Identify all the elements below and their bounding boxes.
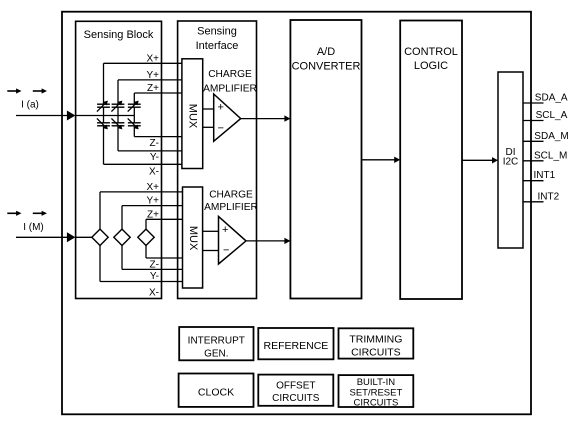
wire Y- (mag) to MUX (122, 268, 183, 270)
svg-text:X+: X+ (146, 53, 159, 64)
Sensing Interface box (178, 21, 257, 299)
svg-text:X-: X- (149, 288, 159, 299)
wire Z mag branch upper (145, 219, 147, 229)
wire Z- (mag) to MUX (146, 257, 183, 259)
label BUILT-IN SET/RESET CIRCUITS (350, 377, 403, 409)
svg-text:MUX: MUX (187, 226, 199, 251)
svg-text:Y-: Y- (150, 152, 159, 163)
wire Y accel branch middle (117, 107, 119, 123)
svg-text:AMPLIFIER: AMPLIFIER (203, 83, 257, 94)
pin wire INT1 (523, 180, 544, 182)
svg-text:LOGIC: LOGIC (414, 60, 448, 72)
Sensing Block box (76, 21, 162, 298)
wire Z accel branch upper (133, 93, 135, 104)
pin wire SCL_M (523, 160, 544, 162)
A/D Converter box U1 (290, 20, 361, 299)
wire Z accel branch lower (133, 126, 135, 137)
wire Y+ (mag) to MUX (122, 205, 183, 207)
svg-text:CLOCK: CLOCK (198, 386, 234, 398)
svg-text:I (a): I (a) (21, 100, 39, 111)
svg-text:SCL_M: SCL_M (534, 150, 567, 161)
label TRIMMING CIRCUITS (349, 334, 402, 359)
wire MUX to amp + input (accel) (203, 108, 214, 110)
svg-text:Y+: Y+ (146, 70, 159, 81)
svg-text:CIRCUITS: CIRCUITS (351, 347, 401, 359)
variable capacitor CY2 (accel Y lower) (111, 118, 124, 129)
Clock box (179, 374, 254, 407)
magnetoresistive element RY (diamond) (114, 229, 130, 245)
svg-text:Z-: Z- (150, 138, 159, 149)
svg-text:CIRCUITS: CIRCUITS (272, 393, 320, 404)
wire Z- (accel) to MUX (134, 136, 182, 138)
wire X accel branch lower (103, 126, 105, 165)
svg-text:CHARGE: CHARGE (208, 69, 252, 80)
svg-text:SDA_M: SDA_M (534, 131, 568, 142)
svg-text:+: + (217, 101, 223, 113)
Control Logic box U2 (400, 21, 462, 300)
wire MUX to amp - input (mag) (203, 250, 219, 252)
pin wire INT2 (523, 201, 544, 203)
wire I(M) excitation line inside block (75, 236, 92, 238)
wire Z mag branch lower (145, 245, 147, 258)
label CHARGE AMPLIFIER (accel) (203, 69, 257, 94)
svg-text:SCL_A: SCL_A (536, 110, 568, 121)
wire X- (mag) to MUX (100, 281, 183, 283)
svg-text:Z+: Z+ (147, 83, 159, 94)
svg-text:Interface: Interface (196, 40, 239, 52)
svg-text:OFFSET: OFFSET (276, 381, 315, 392)
input arrow I (M) small arrow 1 (7, 211, 21, 216)
svg-text:X+: X+ (146, 182, 159, 193)
svg-text:Y+: Y+ (146, 196, 159, 207)
wire amp (accel) output to A/D converter (241, 115, 291, 121)
svg-text:AMPLIFIER: AMPLIFIER (204, 202, 258, 213)
pin wire SCL_A (523, 120, 544, 122)
svg-text:+: + (222, 224, 228, 236)
MUX (accel) box (182, 59, 203, 169)
DI I2C interface box U3 (498, 72, 523, 248)
svg-text:Z+: Z+ (147, 209, 159, 220)
label OFFSET CIRCUITS (272, 381, 320, 404)
label CONTROL LOGIC (404, 46, 458, 72)
wire A/D converter to Control Logic (362, 157, 401, 163)
svg-text:CONTROL: CONTROL (404, 46, 458, 58)
wire Z accel branch middle (133, 107, 135, 123)
wire Y+ (accel) to MUX (118, 79, 182, 81)
svg-text:I2C: I2C (503, 157, 519, 168)
Trimming Circuits box (339, 328, 414, 358)
variable capacitor CZ1 (accel Z upper) (128, 101, 141, 112)
variable capacitor CZ2 (accel Z lower) (128, 118, 141, 129)
MUX (mag) box (183, 187, 203, 288)
svg-text:I (M): I (M) (23, 222, 44, 233)
label A/D CONVERTER (292, 46, 361, 72)
svg-text:MUX: MUX (187, 104, 199, 129)
label CHARGE AMPLIFIER (mag) (204, 189, 258, 213)
label Sensing Interface (196, 26, 239, 53)
wire X- (accel) to MUX (104, 163, 183, 165)
wire X mag branch upper (99, 192, 101, 230)
wire Control Logic to DI I2C (462, 157, 498, 163)
op-amp charge amplifier A1 (accel) (214, 94, 241, 141)
label DI I2C (503, 147, 519, 168)
wire I(a) excitation line with arrow into Sensing Block (16, 111, 75, 121)
pin wire SDA_M (523, 140, 544, 142)
wire Y accel branch lower (117, 126, 119, 151)
wire MUX to amp + input (mag) (203, 230, 219, 232)
svg-text:−: − (217, 123, 223, 135)
svg-text:CIRCUITS: CIRCUITS (353, 398, 398, 409)
svg-text:TRIMMING: TRIMMING (349, 334, 402, 346)
label INTERRUPT GEN. (188, 335, 245, 359)
input arrow I (a) small arrow 2 (33, 88, 47, 93)
wire X mag branch lower (99, 245, 101, 281)
variable capacitor CX2 (accel X lower) (97, 118, 110, 129)
svg-text:SDA_A: SDA_A (535, 93, 568, 104)
svg-text:INTERRUPT: INTERRUPT (188, 335, 245, 346)
Reference box (258, 328, 333, 359)
Built-in Set/Reset Circuits box (339, 375, 414, 407)
Offset Circuits box (258, 375, 333, 406)
wire I(a) excitation line inside block (75, 115, 134, 117)
wire Y mag branch lower (121, 245, 123, 269)
svg-text:INT1: INT1 (534, 170, 556, 181)
variable capacitor CY1 (accel Y upper) (111, 101, 124, 112)
wire X+ (mag) to MUX (100, 191, 183, 193)
wire Z+ (accel) to MUX (134, 92, 182, 94)
svg-text:INT2: INT2 (538, 191, 560, 202)
wire Y accel branch upper (117, 80, 119, 104)
svg-text:Sensing Block: Sensing Block (84, 29, 154, 41)
input arrow I (M) small arrow 2 (33, 211, 47, 216)
input arrow I (a) small arrow 1 (7, 88, 21, 93)
wire MUX to amp - input (accel) (203, 126, 214, 128)
chip outer boundary box (62, 12, 531, 415)
wire Y mag branch upper (121, 206, 123, 230)
pin wire SDA_A (523, 102, 544, 104)
wire I(M) excitation line with arrow into Sensing Block (16, 232, 75, 242)
op-amp charge amplifier A2 (mag) (219, 216, 247, 264)
wire X accel branch upper (103, 63, 105, 104)
wire X accel branch middle (103, 107, 105, 123)
svg-text:X-: X- (149, 166, 159, 177)
wire X+ (accel) to MUX (104, 62, 183, 64)
wire Z+ (mag) to MUX (146, 218, 183, 220)
svg-text:Sensing: Sensing (197, 26, 237, 38)
magnetoresistive element RX (diamond) (92, 229, 108, 245)
wire Y- (accel) to MUX (118, 150, 182, 152)
svg-text:A/D: A/D (317, 46, 335, 58)
Interrupt Generator box (179, 327, 253, 360)
svg-text:BUILT-IN: BUILT-IN (357, 377, 395, 388)
svg-text:−: − (223, 245, 229, 257)
wire amp (mag) output to A/D converter (246, 238, 290, 244)
svg-text:REFERENCE: REFERENCE (264, 340, 329, 352)
variable capacitor CX1 (accel X upper) (97, 101, 110, 112)
svg-text:Y-: Y- (150, 271, 159, 282)
svg-text:CHARGE: CHARGE (209, 189, 253, 200)
magnetoresistive element RZ (diamond) (138, 229, 154, 245)
svg-text:GEN.: GEN. (204, 348, 228, 359)
svg-text:CONVERTER: CONVERTER (292, 60, 361, 72)
